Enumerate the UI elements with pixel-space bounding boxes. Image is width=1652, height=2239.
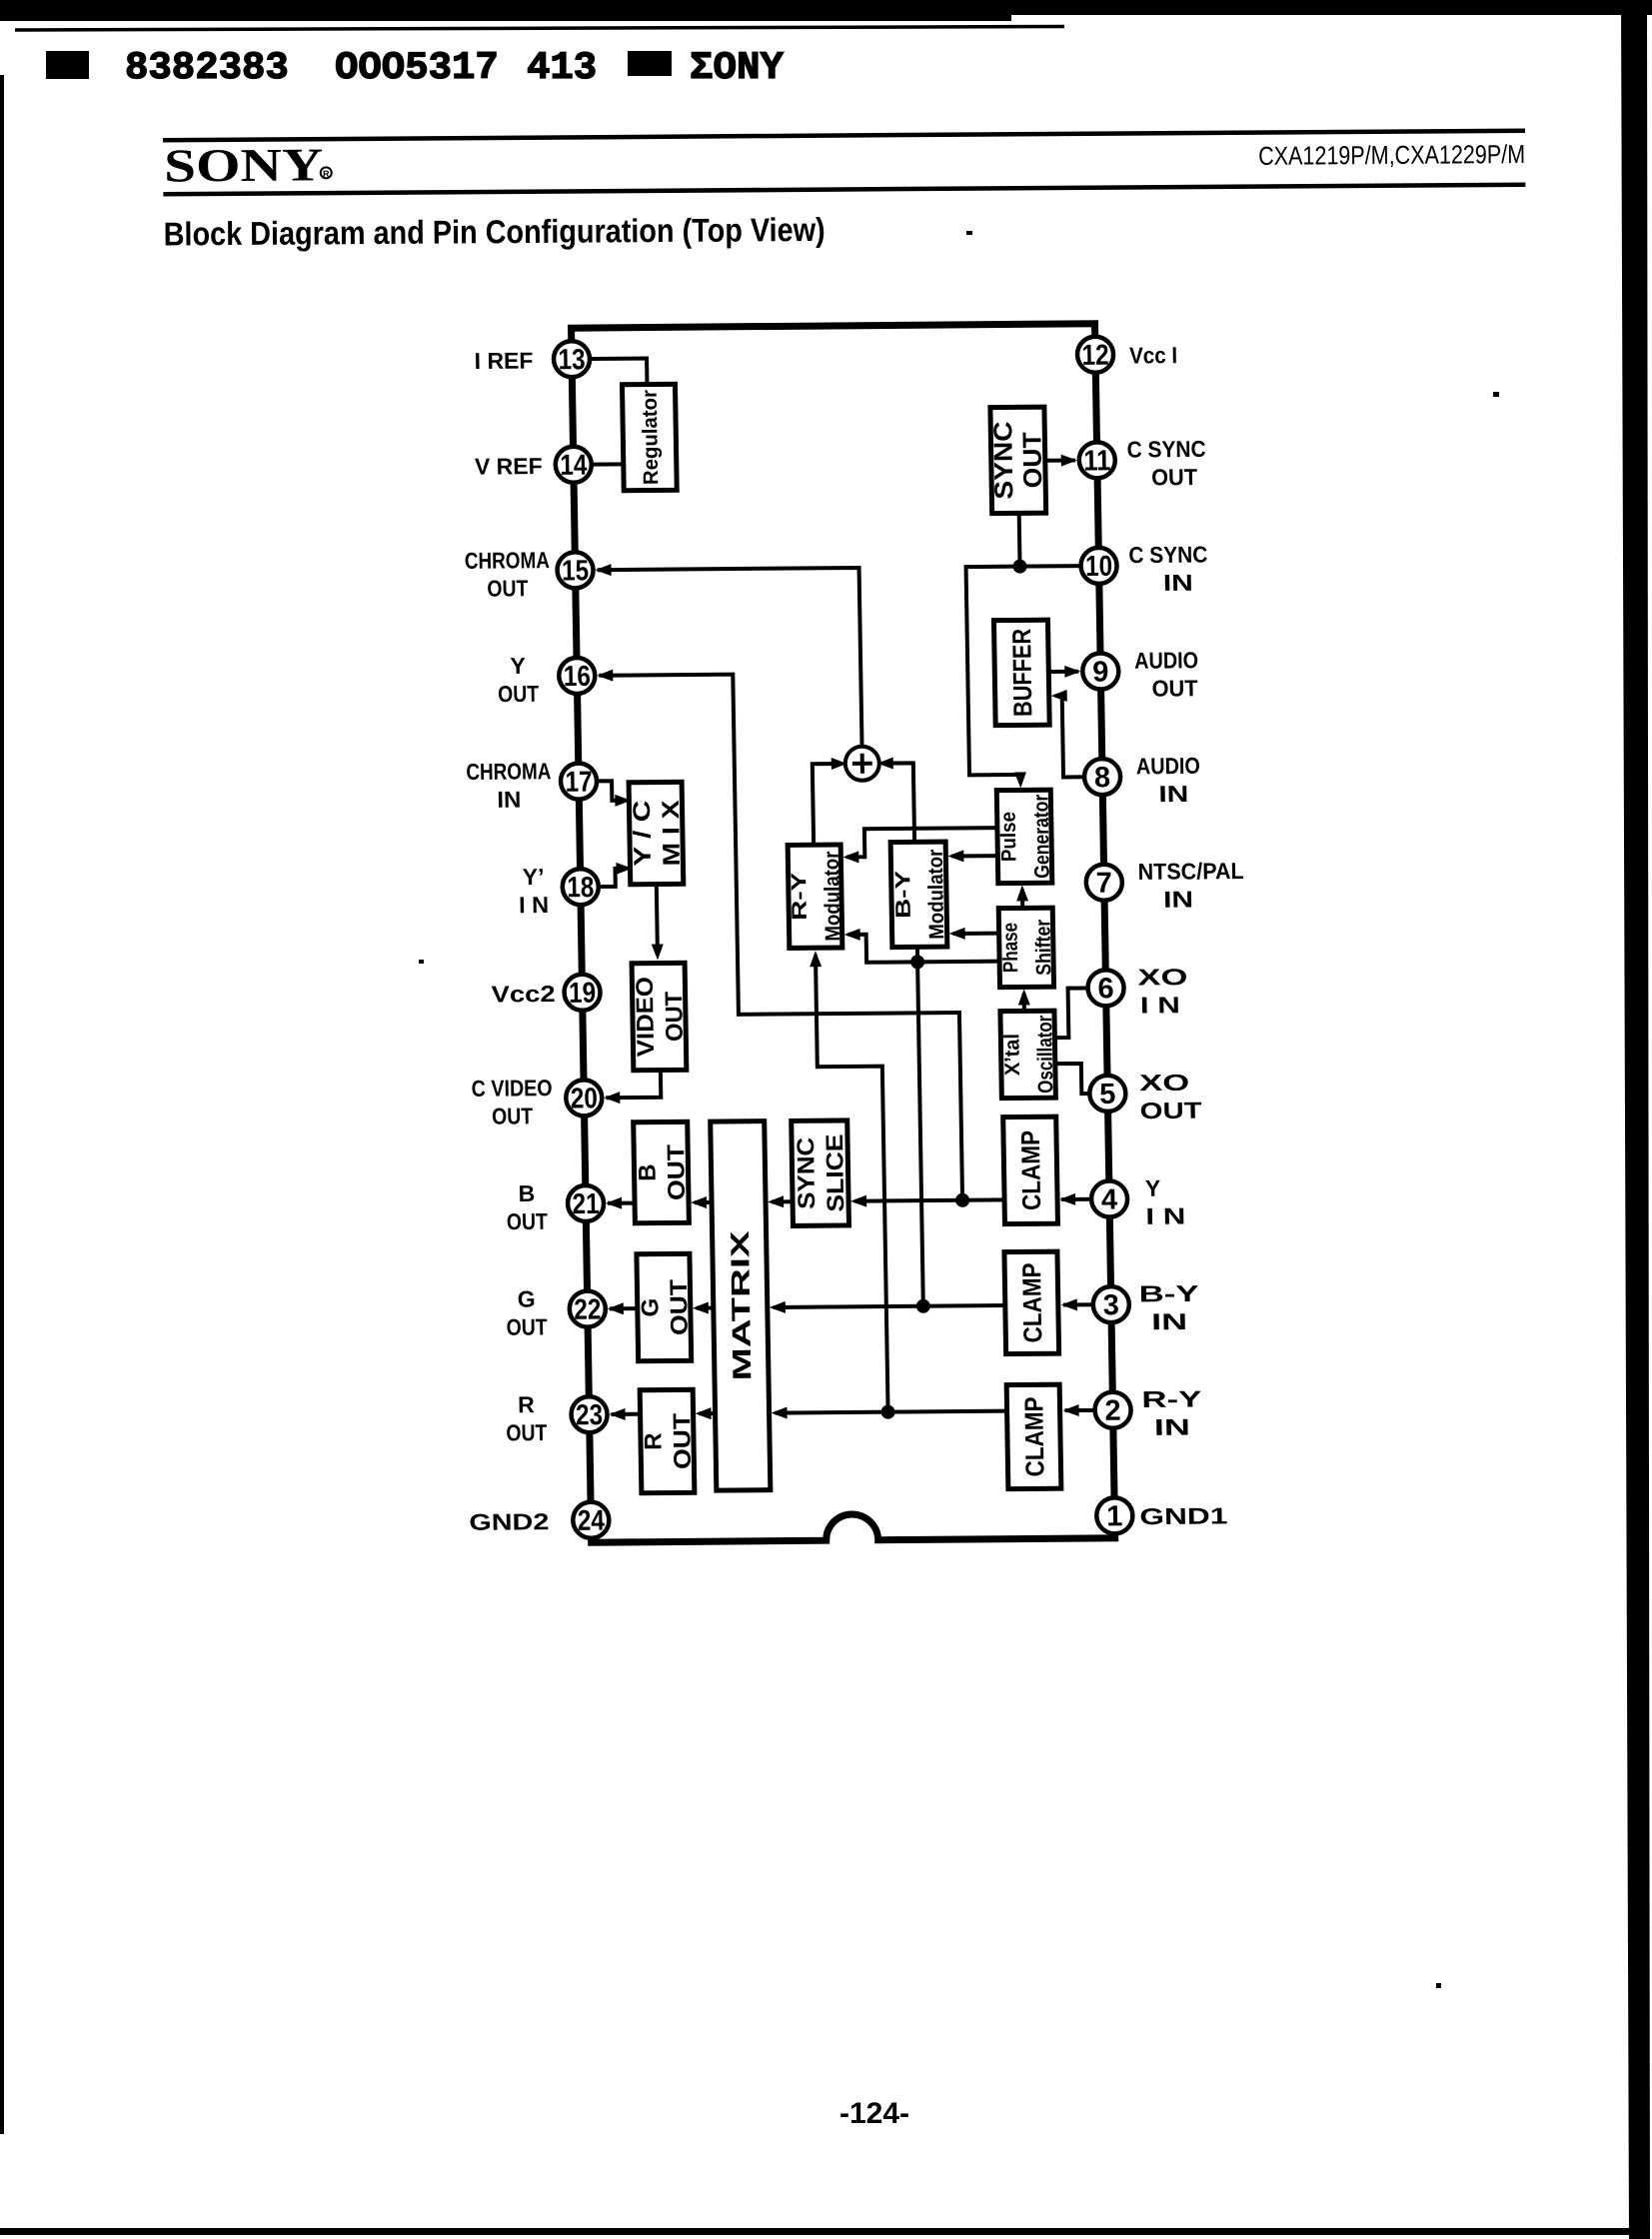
arrowhead into MATRIX right (sync) [768, 1195, 784, 1207]
svg-text:OUT: OUT [1151, 464, 1197, 490]
wire pin18 to Y/C MIX input [599, 869, 619, 887]
arrowhead into B OUT right [691, 1196, 707, 1208]
wire Y/C MIX to VIDEO OUT [657, 885, 658, 947]
svg-text:Vcc2: Vcc2 [491, 981, 555, 1008]
label GND1 [1139, 1502, 1228, 1529]
svg-text:R-Y: R-Y [1141, 1385, 1201, 1412]
svg-text:10: 10 [1085, 551, 1113, 583]
block MATRIX [711, 1121, 771, 1490]
arrowhead into pin22 [608, 1302, 624, 1314]
wire pin13 to Regulator top [590, 359, 647, 385]
block Regulator [622, 384, 677, 490]
svg-text:R-Y: R-Y [788, 873, 812, 921]
svg-text:I REF: I REF [474, 348, 533, 374]
svg-text:OUT: OUT [661, 991, 689, 1042]
wire pin14 to Regulator left [592, 462, 624, 466]
svg-text:24: 24 [578, 1505, 606, 1537]
svg-text:Shifter: Shifter [1031, 920, 1055, 976]
wire pin4 (Y IN) to CLAMP [1061, 1197, 1091, 1201]
label XO IN [1137, 964, 1188, 1018]
arrowhead into adder left [831, 758, 847, 770]
svg-text:C VIDEO: C VIDEO [471, 1075, 552, 1102]
svg-text:R: R [518, 1391, 535, 1417]
svg-text:XO: XO [1137, 964, 1187, 990]
block SYNC OUT [987, 407, 1048, 514]
svg-text:OOO5317: OOO5317 [335, 46, 499, 90]
svg-text:16: 16 [564, 661, 592, 693]
svg-text:V REF: V REF [475, 453, 543, 480]
arrowhead into B-Y Modulator carrier input [947, 850, 963, 862]
arrowhead into R-Y Modulator subcarrier input [844, 929, 860, 941]
arrowhead into pin15 [595, 564, 611, 576]
block diagram group [450, 323, 1255, 1544]
svg-text:B: B [634, 1163, 661, 1181]
pin 17 [561, 763, 598, 799]
svg-text:AUDIO: AUDIO [1134, 647, 1198, 674]
wire R OUT to pin23 (R OUT) [612, 1412, 641, 1416]
wire B-Y net to B-Y Modulator bottom [917, 947, 923, 1305]
label Y IN [1145, 1174, 1186, 1228]
svg-text:3: 3 [1103, 1289, 1120, 1321]
svg-text:IN: IN [1163, 570, 1193, 596]
block CLAMP (Y) [1003, 1117, 1058, 1223]
block G OUT [636, 1253, 694, 1360]
pin 8 [1084, 759, 1121, 795]
label CHROMA OUT [465, 547, 551, 602]
arrowhead into pin16 [597, 670, 613, 682]
block Pulse Generator [996, 790, 1054, 883]
svg-text:Y’: Y’ [523, 864, 545, 890]
junction B-Y net [916, 1299, 930, 1313]
svg-text:IN: IN [1158, 781, 1188, 807]
svg-text:I N: I N [519, 892, 549, 918]
header top rule [163, 128, 1525, 142]
scan artifact: right page edge band [1621, 0, 1650, 2239]
arrowhead into MATRIX right (B-Y) [770, 1301, 786, 1313]
svg-text:Modulator: Modulator [924, 850, 948, 940]
svg-text:IN: IN [497, 787, 521, 813]
svg-text:I N: I N [1140, 992, 1180, 1018]
wire R-Y CLAMP output to MATRIX [776, 1411, 1008, 1413]
pin 6 [1087, 970, 1124, 1006]
svg-text:Phase: Phase [998, 923, 1022, 973]
arrowhead into adder right [877, 758, 893, 770]
arrowhead into SYNC SLICE right [850, 1195, 866, 1207]
wire BUFFER to pin9 (AUDIO OUT) [1048, 670, 1078, 674]
block R OUT [640, 1389, 698, 1492]
svg-text:8: 8 [1094, 762, 1111, 794]
svg-text:22: 22 [574, 1293, 602, 1325]
pin 10 [1080, 548, 1117, 584]
registered trademark mark [321, 167, 332, 179]
block CLAMP (R-Y) [1006, 1384, 1061, 1488]
junction Y net [955, 1193, 969, 1207]
label AUDIO IN [1136, 753, 1201, 808]
arrowhead into MATRIX right (R-Y) [771, 1407, 787, 1419]
block Y/C MIX [629, 782, 687, 884]
pin 3 [1093, 1286, 1130, 1322]
svg-text:15: 15 [562, 555, 590, 587]
svg-text:19: 19 [569, 978, 597, 1010]
wire Phase Shifter to B-Y Modulator [953, 932, 1000, 936]
pin 11 [1078, 442, 1115, 478]
svg-text:R: R [640, 1432, 667, 1450]
scan artifact: left page edge [0, 75, 4, 2134]
svg-text:4: 4 [1101, 1183, 1118, 1215]
svg-text:7: 7 [1095, 868, 1112, 900]
svg-text:Y: Y [1145, 1175, 1161, 1201]
wire R-Y Modulator output to adder [813, 764, 843, 845]
svg-text:12: 12 [1081, 340, 1109, 372]
pin 18 [563, 869, 600, 905]
svg-text:OUT: OUT [498, 681, 539, 707]
pin 21 [568, 1185, 605, 1221]
wire VIDEO OUT to pin20 (C VIDEO OUT) [606, 1071, 661, 1099]
wire SYNC OUT bottom to C SYNC IN net [1017, 513, 1022, 566]
arrowhead into Pulse Generator top [1014, 772, 1026, 788]
label Y OUT [497, 653, 539, 707]
wire Phase Shifter to Pulse Generator [1020, 889, 1024, 908]
wire pin3 (B-Y IN) to CLAMP [1063, 1302, 1093, 1306]
svg-text:17: 17 [565, 766, 593, 798]
svg-text:OUT: OUT [1139, 1098, 1201, 1124]
svg-text:CHROMA: CHROMA [466, 758, 551, 785]
svg-text:B-Y: B-Y [1138, 1280, 1198, 1307]
wire pin17 to Y/C MIX input [597, 781, 617, 801]
wire SYNC SLICE to MATRIX [772, 1199, 793, 1203]
svg-text:ΣONY: ΣONY [690, 46, 785, 90]
wire G OUT to pin22 (G OUT) [610, 1306, 638, 1310]
svg-text:-124-: -124- [839, 2097, 909, 2130]
wire X'tal Oscillator to pin5 (XO OUT) [1055, 1064, 1090, 1094]
svg-text:OUT: OUT [669, 1412, 697, 1469]
arrowhead into R-Y Modulator bottom [810, 951, 822, 967]
svg-text:C SYNC: C SYNC [1126, 436, 1205, 463]
label Vcc I [1129, 342, 1177, 368]
svg-text:BUFFER: BUFFER [1006, 629, 1037, 717]
arrowhead into pin9 [1064, 666, 1080, 678]
wire R-Y net to R-Y Modulator bottom [816, 955, 888, 1413]
arrowhead into Y/C MIX lower input [616, 863, 632, 875]
junction C SYNC net [1012, 560, 1026, 574]
block VIDEO OUT [632, 963, 690, 1070]
svg-text:413: 413 [527, 46, 597, 90]
arrowhead into pin20 [604, 1092, 620, 1104]
pin 9 [1082, 653, 1119, 689]
pin 4 [1091, 1180, 1128, 1216]
IC package outline (24-pin DIP, top view) [572, 324, 1115, 1542]
label B OUT [506, 1180, 548, 1234]
label B-Y IN [1138, 1280, 1199, 1335]
block SYNC SLICE [792, 1120, 850, 1225]
adder (+) summing node [845, 747, 880, 781]
wire MATRIX to B OUT [695, 1200, 712, 1204]
header black square left [46, 51, 89, 79]
arrowhead into Y CLAMP right [1059, 1193, 1075, 1205]
svg-text:OUT: OUT [663, 1143, 691, 1200]
svg-text:21: 21 [572, 1188, 600, 1220]
wire B OUT to pin21 (B OUT) [608, 1201, 635, 1205]
svg-text:XO: XO [1139, 1070, 1189, 1096]
block CLAMP (B-Y) [1004, 1251, 1059, 1353]
pin 1 [1096, 1497, 1133, 1533]
svg-text:1: 1 [1106, 1500, 1123, 1532]
svg-text:Pulse: Pulse [997, 812, 1021, 862]
svg-text:IN: IN [1163, 886, 1193, 912]
pin 24 [573, 1502, 610, 1538]
arrowhead into pin11 [1061, 455, 1077, 467]
svg-text:2: 2 [1104, 1395, 1121, 1427]
svg-text:14: 14 [560, 450, 588, 482]
label C VIDEO OUT [471, 1075, 553, 1129]
wire SYNC OUT to pin11 (C SYNC OUT) [1045, 459, 1075, 463]
scan artifact: top black band [0, 0, 1652, 30]
pin 20 [566, 1080, 603, 1116]
svg-text:G: G [517, 1286, 535, 1312]
arrowhead into pin21 [606, 1197, 622, 1209]
wire B-Y Modulator output to adder [882, 763, 914, 842]
svg-text:CLAMP: CLAMP [1018, 1396, 1049, 1476]
arrowhead into Y/C MIX upper input [615, 795, 631, 807]
wire MATRIX to R OUT [700, 1411, 716, 1415]
label Vcc2 [491, 981, 555, 1008]
header black square right [628, 51, 672, 76]
svg-text:Block Diagram and Pin Configur: Block Diagram and Pin Configuration (Top… [164, 211, 826, 253]
svg-text:5: 5 [1099, 1079, 1116, 1111]
svg-text:Y: Y [510, 653, 526, 679]
wire Pulse Generator to R-Y Modulator [846, 828, 998, 857]
block B-Y Modulator [890, 842, 948, 947]
arrowhead into VIDEO OUT top [652, 944, 664, 960]
svg-text:Regulator: Regulator [639, 390, 664, 485]
svg-text:OUT: OUT [1016, 432, 1047, 488]
svg-text:OUT: OUT [666, 1278, 694, 1335]
svg-text:VIDEO: VIDEO [632, 977, 660, 1057]
arrowhead into pin23 [609, 1408, 625, 1420]
pin 14 [555, 447, 592, 483]
svg-text:9: 9 [1092, 656, 1109, 688]
svg-text:GND1: GND1 [1139, 1502, 1228, 1529]
svg-text:SYNC: SYNC [987, 421, 1018, 499]
svg-text:8382383: 8382383 [125, 46, 289, 90]
svg-text:13: 13 [558, 344, 586, 376]
svg-text:MATRIX: MATRIX [725, 1229, 758, 1380]
svg-text:GND2: GND2 [469, 1508, 549, 1535]
svg-text:OUT: OUT [492, 1103, 533, 1128]
label AUDIO OUT [1134, 647, 1199, 702]
svg-text:IN: IN [1151, 1308, 1187, 1334]
svg-text:G: G [637, 1298, 664, 1317]
svg-text:OUT: OUT [506, 1313, 547, 1339]
wire MATRIX to G OUT [697, 1306, 714, 1310]
label R OUT [506, 1391, 548, 1445]
svg-text:OUT: OUT [506, 1419, 547, 1445]
svg-text:NTSC/PAL: NTSC/PAL [1137, 858, 1243, 885]
svg-text:SYNC: SYNC [793, 1137, 821, 1209]
label I REF [474, 348, 533, 374]
label C SYNC OUT [1126, 436, 1206, 491]
svg-text:23: 23 [576, 1399, 604, 1431]
svg-text:R: R [323, 169, 330, 179]
svg-text:CLAMP: CLAMP [1015, 1130, 1046, 1210]
label C SYNC IN [1128, 542, 1208, 597]
pin 15 [557, 552, 594, 588]
svg-text:SLICE: SLICE [822, 1133, 849, 1211]
pin 16 [559, 658, 596, 694]
arrowhead into G OUT right [693, 1302, 709, 1314]
pin 5 [1089, 1076, 1126, 1112]
wire Pulse Generator to B-Y Modulator [951, 854, 998, 858]
svg-text:6: 6 [1097, 973, 1114, 1005]
wire pin8 (AUDIO IN) to BUFFER [1055, 696, 1084, 778]
pin 7 [1086, 865, 1123, 901]
label R-Y IN [1141, 1385, 1202, 1440]
svg-text:CHROMA: CHROMA [465, 547, 550, 574]
svg-text:11: 11 [1083, 445, 1111, 477]
svg-text:SONY: SONY [164, 139, 323, 192]
svg-text:AUDIO: AUDIO [1136, 753, 1200, 780]
pin 22 [570, 1290, 607, 1326]
svg-text:Oscillator: Oscillator [1033, 1016, 1057, 1094]
block X'tal Oscillator [1000, 1011, 1057, 1098]
wire X'tal Oscillator to pin6 (XO IN) [1054, 988, 1089, 1038]
label XO OUT [1139, 1070, 1202, 1124]
arrowhead into B-Y CLAMP right [1061, 1298, 1077, 1310]
arrowhead into B-Y Modulator subcarrier input [949, 928, 965, 940]
svg-text:M I X: M I X [658, 800, 686, 866]
label CHROMA IN [466, 758, 552, 813]
pin 13 [554, 341, 591, 377]
block R-Y Modulator [788, 845, 845, 948]
svg-text:Generator: Generator [1029, 795, 1053, 879]
svg-text:CLAMP: CLAMP [1016, 1262, 1047, 1342]
wire Phase Shifter to R-Y Modulator and B-Y net [848, 934, 1000, 963]
arrowhead into Pulse Generator bottom [1016, 885, 1028, 901]
svg-text:OUT: OUT [487, 575, 528, 601]
block Phase Shifter [998, 908, 1055, 987]
scan artifact: bottom black line [0, 2228, 1642, 2235]
block BUFFER [993, 620, 1049, 725]
pin 2 [1094, 1392, 1131, 1428]
block B OUT [634, 1121, 692, 1222]
scan speckles [419, 231, 1499, 1988]
wire B-Y CLAMP output to MATRIX [774, 1305, 1006, 1307]
header bottom rule [163, 182, 1525, 196]
svg-text:Vcc I: Vcc I [1129, 342, 1177, 368]
svg-text:CXA1219P/M,CXA1229P/M: CXA1219P/M,CXA1229P/M [1258, 139, 1525, 171]
junction R-Y net [880, 1405, 894, 1419]
label G OUT [506, 1285, 548, 1339]
wire pin10 (C SYNC IN) to Pulse Generator [966, 566, 1085, 784]
arrowhead into R OUT right [695, 1407, 711, 1419]
wire Y junction to pin16 (Y OUT) [599, 673, 962, 1203]
junction B-Y subcarrier tee [910, 955, 924, 969]
label NTSC/PAL IN [1137, 858, 1244, 913]
wire pin2 (R-Y IN) to CLAMP [1065, 1408, 1095, 1412]
pin 12 [1077, 337, 1114, 373]
svg-text:OUT: OUT [1151, 675, 1197, 701]
svg-text:B: B [518, 1180, 535, 1206]
svg-text:X’tal: X’tal [1000, 1034, 1024, 1076]
label V REF [475, 453, 543, 480]
svg-text:IN: IN [1154, 1414, 1190, 1440]
wire X'tal Oscillator to Phase Shifter [1022, 993, 1026, 1011]
svg-text:B-Y: B-Y [891, 871, 915, 919]
arrowhead into BUFFER right edge [1051, 690, 1067, 702]
svg-text:Modulator: Modulator [821, 851, 844, 941]
label Y' IN [518, 864, 549, 918]
svg-text:C SYNC: C SYNC [1128, 542, 1207, 569]
arrowhead into R-Y Modulator carrier input [842, 851, 858, 863]
wire Y CLAMP output to SYNC SLICE [854, 1199, 1004, 1200]
svg-text:I N: I N [1145, 1202, 1185, 1228]
arrowhead into Phase Shifter bottom [1018, 989, 1030, 1005]
svg-text:OUT: OUT [507, 1208, 548, 1234]
label GND2 [469, 1508, 549, 1535]
pin 19 [564, 975, 601, 1011]
svg-text:18: 18 [567, 872, 595, 904]
wire adder output to pin15 (CHROMA OUT) [598, 568, 862, 749]
arrowhead into R-Y CLAMP right [1062, 1404, 1078, 1416]
svg-text:Y / C: Y / C [629, 801, 657, 867]
svg-text:20: 20 [571, 1083, 599, 1115]
pin 23 [571, 1396, 608, 1432]
